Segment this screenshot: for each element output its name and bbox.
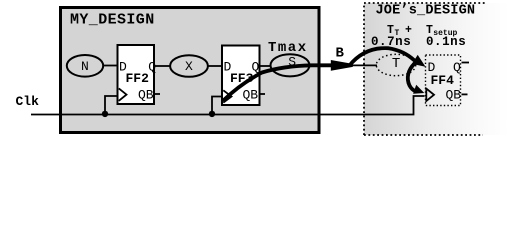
wire FF3 clock branch [212, 97, 221, 115]
svg-text:0.7ns: 0.7ns [371, 35, 411, 49]
svg-text:QB: QB [243, 88, 259, 103]
dotted border JOE's_DESIGN [364, 3, 486, 135]
svg-text:B: B [336, 46, 345, 62]
flip-flop FF2 [118, 45, 161, 104]
wire FF2 Q to X [155, 65, 170, 67]
svg-text:FF4: FF4 [431, 73, 455, 88]
wire X to FF3 D [208, 65, 221, 67]
svg-text:QB: QB [446, 88, 462, 103]
flip-flop FF3 [222, 46, 265, 106]
flip-flop FF4 (dotted) [426, 55, 470, 106]
node S [271, 54, 310, 76]
node X [170, 55, 208, 77]
arrowhead B [331, 60, 353, 71]
wire Clk net [31, 96, 425, 115]
wire FF3 Q to S [261, 65, 272, 67]
svg-text:MY_DESIGN: MY_DESIGN [70, 12, 155, 29]
svg-text:Q: Q [453, 60, 461, 75]
wire B to T [353, 64, 378, 66]
svg-text:X: X [185, 59, 193, 74]
timing path over node T (thick curve) [349, 48, 415, 66]
svg-text:T: T [392, 56, 400, 72]
node N [67, 55, 103, 77]
svg-text:Clk: Clk [16, 94, 40, 109]
timing path branch into FF4 CK (thick curve) [408, 64, 416, 92]
svg-text:FF2: FF2 [126, 71, 150, 86]
svg-text:Q: Q [148, 60, 156, 75]
wire FF2 clock branch [105, 96, 117, 115]
gradient backdrop of JOE's_DESIGN block [364, 3, 509, 135]
svg-text:0.1ns: 0.1ns [426, 35, 466, 49]
node T (dotted ellipse) [376, 54, 415, 75]
arrowhead at FF4 D [412, 55, 426, 67]
svg-text:QB: QB [138, 88, 154, 103]
block MY_DESIGN [61, 8, 320, 133]
arrowhead at FF4 CK [413, 85, 424, 94]
svg-text:N: N [81, 59, 89, 74]
timing path from FF3 CK through Q (thick curve) [223, 65, 333, 101]
svg-text:JOE’s_DESIGN: JOE’s_DESIGN [376, 4, 476, 19]
wire N to FF2 D [103, 65, 116, 67]
junction dot at FF3 clock branch [209, 111, 215, 117]
junction dot at FF2 clock branch [102, 111, 108, 117]
